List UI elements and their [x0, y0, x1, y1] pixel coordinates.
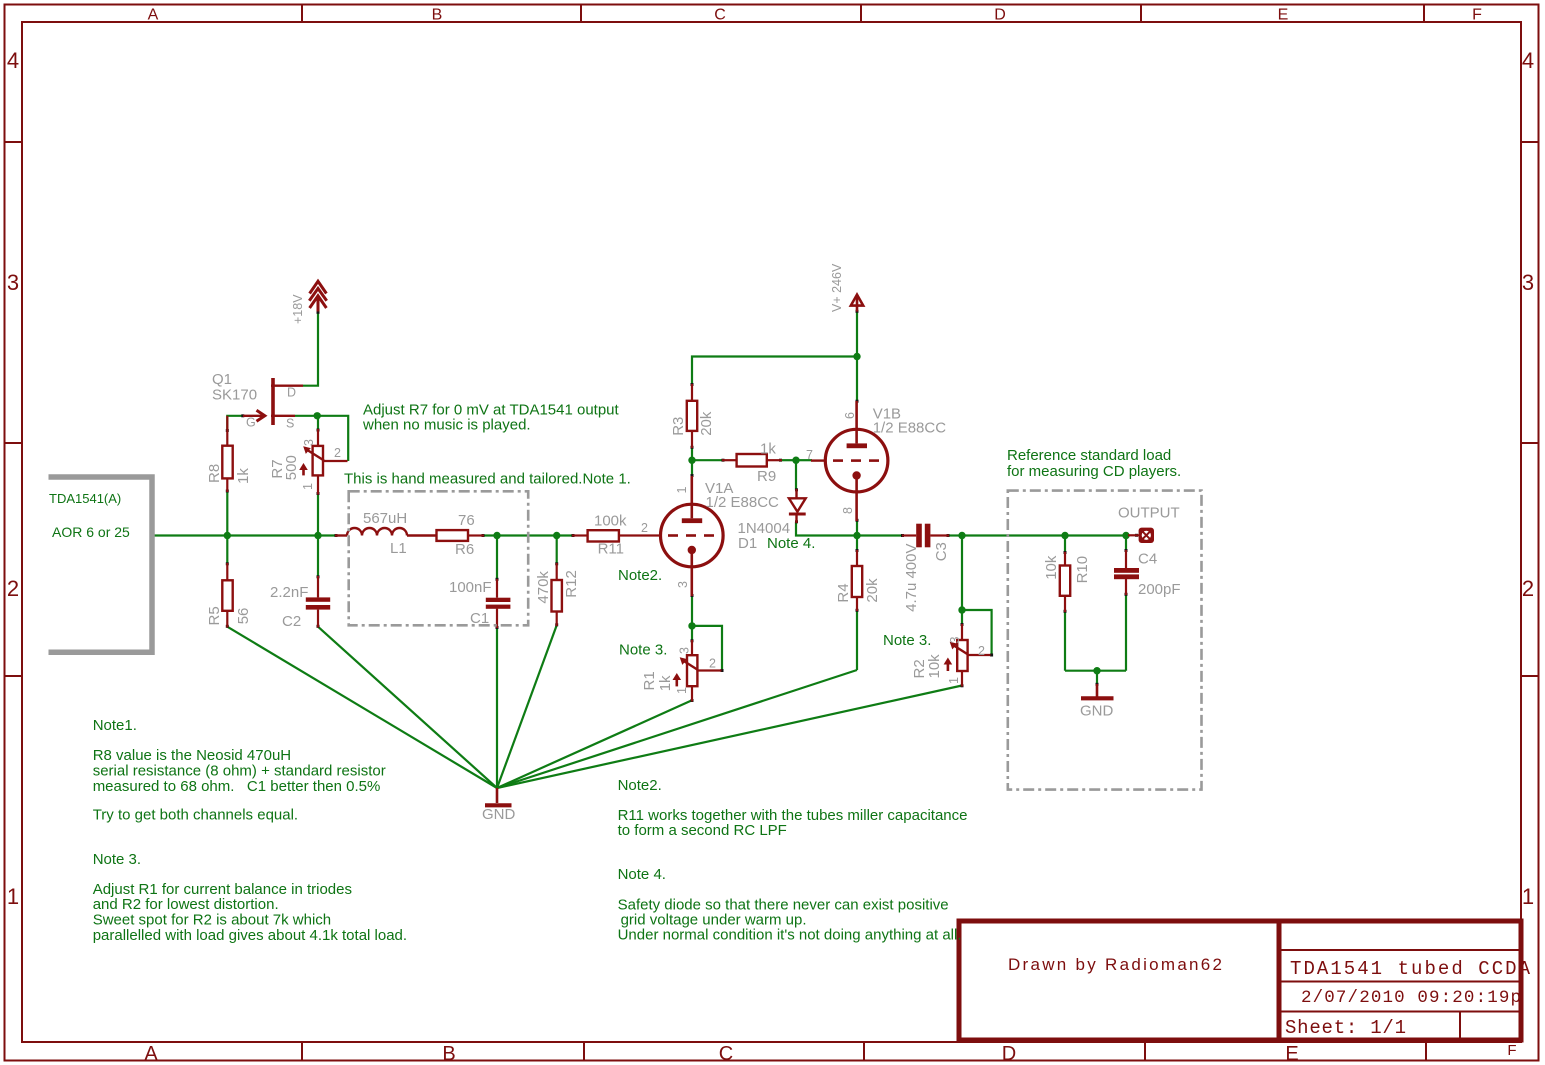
svg-text:V+ 246V: V+ 246V [830, 263, 844, 312]
svg-text:D1: D1 [738, 535, 757, 552]
svg-text:R6: R6 [455, 541, 474, 558]
node junction C3/R2 [958, 532, 965, 539]
svg-text:200pF: 200pF [1138, 581, 1181, 598]
svg-text:AOR 6 or 25: AOR 6 or 25 [52, 524, 130, 540]
svg-text:G: G [246, 416, 256, 430]
wire R12 bottom to GND [497, 625, 557, 788]
wire R1 pin3 [691, 626, 693, 641]
wire node down to R2 node [961, 536, 963, 611]
svg-text:56: 56 [235, 608, 252, 625]
svg-text:1: 1 [675, 687, 689, 694]
svg-text:GND: GND [482, 806, 516, 823]
wire C2 bottom to GND [318, 627, 497, 788]
power V+ 246V supply arrow [851, 295, 863, 312]
wire R4 to GND [497, 670, 857, 788]
svg-text:1/2 E88CC: 1/2 E88CC [706, 494, 780, 511]
TITLEBLOCK [959, 919, 1531, 1042]
wire C4 bottom [1125, 594, 1127, 671]
svg-text:Note1.: Note1. [93, 717, 137, 734]
node junction main/R7/C2 [314, 532, 321, 539]
svg-text:100k: 100k [594, 512, 627, 529]
svg-text:R12: R12 [563, 570, 580, 598]
inductor L1 [335, 528, 437, 536]
wire R8 bottom [226, 491, 228, 536]
potentiometer R1 [673, 640, 722, 702]
svg-text:1: 1 [947, 677, 961, 684]
resistor R5 [222, 563, 232, 628]
wire R10 bottom [1064, 611, 1066, 671]
svg-text:Note 3.: Note 3. [883, 632, 931, 649]
capacitor C3 [902, 524, 949, 548]
dashed box reference load [1008, 491, 1202, 790]
svg-text:1/2 E88CC: 1/2 E88CC [873, 420, 947, 437]
svg-text:C2: C2 [282, 613, 301, 630]
svg-text:Note2.: Note2. [618, 777, 662, 794]
capacitor C1 [486, 579, 511, 628]
wire R3 top to V+ rail [692, 357, 857, 386]
svg-text:Note2.: Note2. [618, 567, 662, 584]
connector OUTPUT pad [1128, 528, 1154, 543]
wire node to R4 [856, 536, 858, 552]
wire node to C4 [1125, 536, 1127, 552]
node junction main/R8 [224, 532, 231, 539]
svg-text:GND: GND [1080, 702, 1114, 719]
wire node to R10 [1064, 536, 1066, 554]
svg-text:to form a second RC LPF: to form a second RC LPF [618, 822, 787, 839]
svg-text:This is hand measured and tail: This is hand measured and tailored.Note … [344, 471, 631, 488]
svg-text:2: 2 [7, 576, 19, 601]
svg-text:R5: R5 [206, 606, 223, 625]
svg-text:470k: 470k [535, 571, 552, 604]
svg-text:A: A [148, 7, 159, 24]
svg-text:parallelled with load gives ab: parallelled with load gives about 4.1k t… [93, 927, 407, 944]
svg-text:2: 2 [709, 657, 716, 671]
svg-text:4: 4 [7, 48, 19, 73]
svg-text:R4: R4 [835, 583, 852, 602]
svg-text:C: C [714, 7, 726, 24]
svg-text:500: 500 [283, 455, 300, 480]
potentiometer R7 [299, 429, 347, 495]
svg-text:Sweet spot for R2 is about 7k: Sweet spot for R2 is about 7k which [93, 912, 331, 929]
svg-text:serial resistance (8 ohm) + st: serial resistance (8 ohm) + standard res… [93, 763, 386, 780]
svg-text:2: 2 [641, 521, 648, 535]
svg-text:20k: 20k [864, 578, 881, 603]
dashed box L1 filter [349, 491, 529, 625]
capacitor C4 [1114, 550, 1139, 595]
svg-text:1k: 1k [657, 675, 674, 691]
svg-text:Sheet: 1/1: Sheet: 1/1 [1285, 1017, 1406, 1039]
node junction main/R12 [553, 532, 560, 539]
resistor R10 [1060, 552, 1070, 612]
svg-text:R8 value is the Neosid 470uH: R8 value is the Neosid 470uH [93, 747, 291, 764]
svg-text:3: 3 [302, 439, 316, 446]
wire C3 to node [948, 534, 962, 536]
wire node to ref box row [962, 534, 1128, 536]
svg-text:R8: R8 [206, 464, 223, 483]
svg-text:10k: 10k [926, 654, 943, 679]
svg-text:C: C [719, 1043, 733, 1065]
svg-text:6: 6 [843, 412, 857, 419]
wire R2 wiper loop [962, 610, 992, 655]
svg-text:R9: R9 [757, 468, 776, 485]
svg-text:1k: 1k [235, 468, 252, 484]
svg-text:TDA1541(A): TDA1541(A) [49, 491, 121, 506]
node junction R3/R9/V1A [688, 457, 695, 464]
svg-text:3: 3 [948, 637, 962, 644]
svg-text:20k: 20k [698, 411, 715, 436]
svg-text:1: 1 [301, 483, 315, 490]
svg-text:Try to get both channels equal: Try to get both channels equal. [93, 807, 298, 824]
svg-text:100nF: 100nF [449, 579, 492, 596]
node junction main/C1 [493, 532, 500, 539]
wire R8 top to gate [227, 416, 243, 430]
resistor R3 [687, 384, 697, 448]
node junction V+ rail [853, 353, 860, 360]
svg-text:OUTPUT: OUTPUT [1118, 504, 1180, 521]
svg-text:A: A [144, 1043, 158, 1065]
svg-text:D: D [994, 7, 1006, 24]
svg-text:R10: R10 [1074, 556, 1091, 584]
IC TDA1541 connector block [49, 477, 153, 652]
wire drain to +18V [303, 312, 318, 386]
svg-text:Note 3.: Note 3. [93, 851, 141, 868]
svg-text:2: 2 [978, 644, 985, 658]
svg-text:for measuring CD players.: for measuring CD players. [1007, 463, 1181, 480]
svg-text:L1: L1 [390, 540, 407, 557]
wire node to D1 [795, 460, 797, 490]
diode D1 1N4004 [789, 489, 806, 523]
wire R5 bottom to GND [227, 627, 497, 788]
svg-text:7: 7 [806, 448, 813, 462]
NOTES [93, 402, 1182, 945]
svg-text:when no music is played.: when no music is played. [362, 417, 531, 434]
svg-text:1: 1 [675, 487, 689, 494]
resistor R9 [722, 454, 782, 467]
svg-text:C3: C3 [933, 542, 950, 561]
resistor R4 [852, 550, 862, 611]
node junction R2 wiper [958, 606, 965, 613]
ground GND center [485, 788, 512, 805]
wire V1B cathode down [856, 520, 858, 536]
node junction ref gnd [1093, 667, 1100, 674]
svg-text:Q1: Q1 [212, 371, 232, 388]
svg-text:3: 3 [676, 581, 690, 588]
svg-text:76: 76 [458, 512, 475, 529]
wire R1 wiper loop [692, 626, 722, 671]
resistor R12 [552, 563, 562, 626]
svg-text:TDA1541 tubed CCDA: TDA1541 tubed CCDA [1290, 958, 1531, 980]
svg-text:E: E [1278, 7, 1289, 24]
svg-text:3: 3 [7, 270, 19, 295]
wire V1A plate to R3 node [691, 460, 693, 474]
node junction S/R7 [314, 412, 321, 419]
wire TDA1541 output to node [154, 534, 337, 536]
svg-text:S: S [286, 417, 294, 431]
node junction R10 top [1061, 532, 1068, 539]
svg-text:2/07/2010 09:20:19p: 2/07/2010 09:20:19p [1301, 988, 1521, 1008]
wire source to R7 node [295, 415, 317, 417]
svg-text:2: 2 [334, 446, 341, 460]
wire R1 pin1 to GND [497, 700, 692, 788]
wire R2 pin3 [961, 610, 963, 625]
svg-text:10k: 10k [1043, 555, 1060, 580]
wire to ref GND [1096, 671, 1098, 684]
ground GND ref box [1081, 684, 1114, 698]
power +18V supply arrow [309, 281, 326, 311]
capacitor C2 [306, 576, 330, 628]
svg-text:Note 4.: Note 4. [767, 535, 815, 552]
transistor Q1 SK170 JFET [243, 378, 303, 425]
wire node to R9 [692, 459, 723, 461]
svg-text:3: 3 [678, 647, 692, 654]
wire R3 bottom [691, 447, 693, 461]
node junction R9/D1/V1B [792, 457, 799, 464]
wire R6 to R11 [482, 534, 573, 536]
svg-text:E: E [1285, 1043, 1298, 1065]
resistor R11 [572, 530, 661, 541]
svg-text:B: B [432, 7, 443, 24]
wire R7 wiper loop [317, 416, 348, 461]
svg-text:1: 1 [7, 884, 19, 909]
svg-text:1: 1 [1522, 884, 1534, 909]
svg-text:Reference standard load: Reference standard load [1007, 447, 1171, 464]
svg-text:B: B [442, 1043, 455, 1065]
wire D1 bottom to output row [796, 522, 902, 536]
wire node to C2 [317, 536, 319, 578]
svg-text:F: F [1507, 1042, 1516, 1059]
svg-text:3: 3 [1522, 270, 1534, 295]
pin connection markers [226, 310, 1138, 702]
svg-text:2: 2 [1522, 576, 1534, 601]
svg-text:2.2nF: 2.2nF [270, 584, 308, 601]
wire R4 bottom [856, 610, 858, 670]
wire node to R5 [226, 536, 228, 565]
wire R7 pin1 to node [317, 493, 319, 536]
svg-text:and R2 for lowest distortion.: and R2 for lowest distortion. [93, 896, 279, 913]
wire C1 bottom to GND [496, 627, 498, 788]
svg-text:F: F [1472, 7, 1482, 24]
wire V+ arrow to V1B plate [856, 312, 858, 402]
wire V1A cathode down [691, 596, 693, 626]
svg-text:R3: R3 [670, 417, 687, 436]
svg-text:4.7u 400V: 4.7u 400V [903, 543, 920, 611]
svg-text:R1: R1 [641, 671, 658, 690]
resistor R6 [437, 530, 485, 541]
resistor R8 [222, 416, 232, 492]
svg-text:Note 3.: Note 3. [619, 642, 667, 659]
wire node to R12 [556, 536, 558, 565]
wire node to V1B grid [796, 459, 812, 461]
svg-text:567uH: 567uH [363, 510, 407, 527]
wire R7 pin3 [317, 416, 319, 431]
svg-text:4: 4 [1522, 48, 1534, 73]
svg-text:Note 4.: Note 4. [618, 866, 666, 883]
node junction V1B cathode/R4 [853, 532, 860, 539]
svg-text:+18V: +18V [291, 294, 305, 324]
svg-text:C4: C4 [1138, 551, 1157, 568]
wire R9 to node [781, 459, 796, 461]
svg-text:R11: R11 [598, 540, 624, 557]
wire ref box bottom row [1065, 670, 1126, 672]
svg-text:SK170: SK170 [212, 387, 257, 404]
svg-text:1k: 1k [760, 441, 776, 458]
tube V1A [661, 476, 724, 596]
svg-text:Under normal condition it's no: Under normal condition it's not doing an… [618, 927, 962, 944]
potentiometer R2 [944, 624, 991, 687]
wire R2 pin1 to GND [497, 686, 962, 789]
wire node to C1 [496, 536, 498, 581]
tube V1B [811, 401, 888, 521]
node junction C4 top [1122, 532, 1129, 539]
node junction V1A cathode/R1 [688, 622, 695, 629]
svg-text:D: D [287, 386, 296, 400]
svg-text:8: 8 [841, 507, 855, 514]
svg-text:D: D [1002, 1043, 1016, 1065]
svg-text:measured to 68 ohm. C1 bette: measured to 68 ohm. C1 better then 0.5% [93, 778, 381, 795]
